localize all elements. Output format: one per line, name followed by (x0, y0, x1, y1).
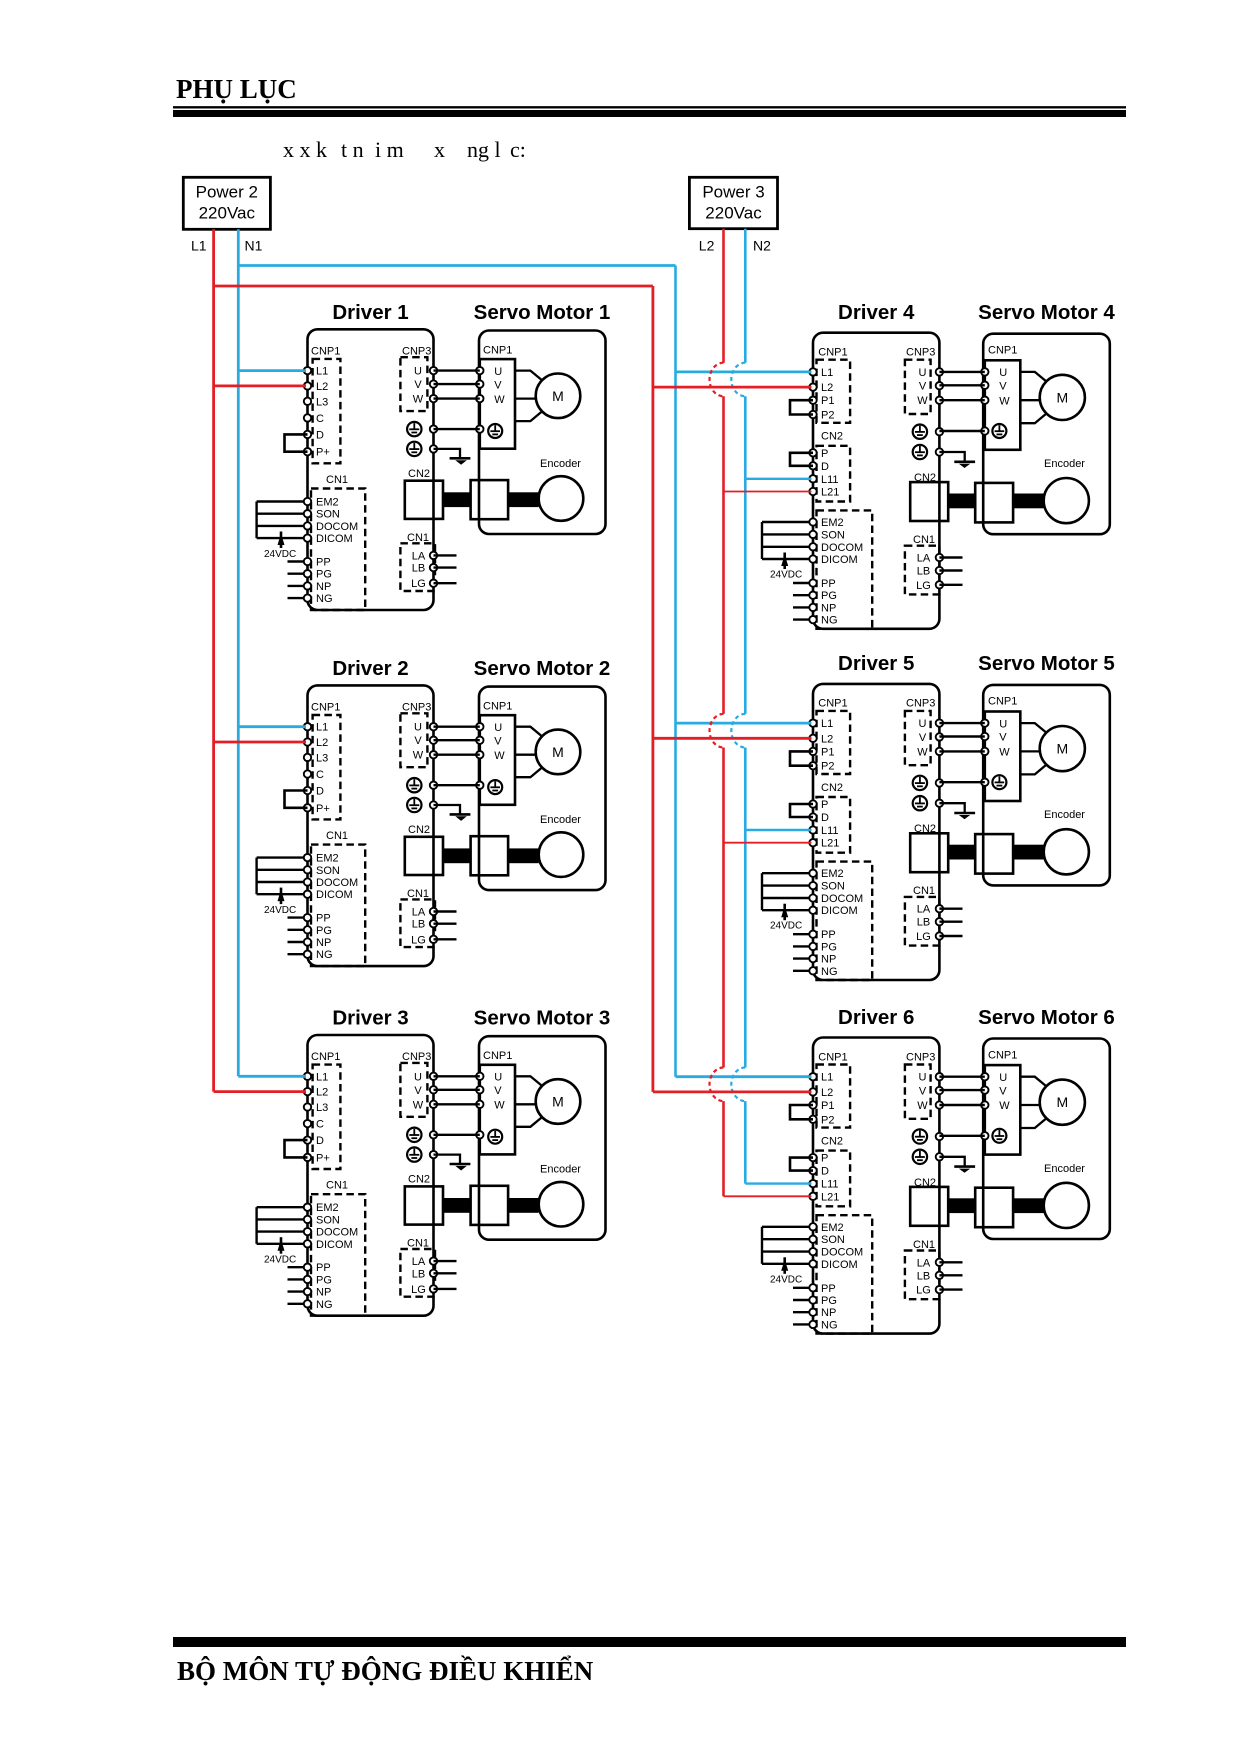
svg-text:CN2: CN2 (821, 431, 843, 443)
svg-text:Power 2: Power 2 (196, 183, 258, 202)
svg-text:NP: NP (821, 1307, 836, 1319)
wire L1 to Driver 3 L2 (214, 1090, 306, 1093)
header rule thick (173, 110, 1126, 117)
Driver 2 regen jumper wire D to P+ (285, 791, 308, 808)
svg-text:EM2: EM2 (316, 497, 339, 509)
motor M circle 3 (536, 1079, 581, 1124)
Servo Motor 1 connector CNP1 (pins U V W earth) (476, 345, 515, 449)
svg-text:C: C (316, 1119, 324, 1131)
svg-text:SON: SON (316, 1214, 340, 1226)
svg-text:Driver 5: Driver 5 (838, 652, 914, 675)
wire N2 to Driver 6 L11 (745, 1182, 811, 1184)
Driver 2 earth terminal 2 (407, 798, 437, 812)
svg-text:NG: NG (316, 593, 333, 605)
Driver 5 jumper wire P to D (790, 804, 813, 817)
Driver 2 connector CN1 (pins EM2 SON DOCOM DICOM PP PG NP NG) (257, 830, 366, 966)
svg-text:W: W (413, 1099, 424, 1111)
svg-text:L2: L2 (821, 733, 833, 745)
svg-text:24VDC: 24VDC (770, 921, 802, 932)
wire N1 to Driver 5 L1 (676, 722, 812, 725)
svg-text:SON: SON (821, 529, 845, 541)
driver Driver 3 outline (308, 1035, 434, 1316)
power source Power 2 box (183, 177, 270, 229)
svg-text:W: W (917, 1100, 928, 1112)
svg-text:V: V (414, 379, 422, 391)
svg-text:M: M (552, 744, 564, 760)
svg-text:L2: L2 (316, 1087, 328, 1099)
motor M winding leads 6 (1020, 1077, 1047, 1128)
svg-text:CNP1: CNP1 (818, 1051, 847, 1063)
svg-text:W: W (494, 750, 505, 762)
encoder cable driver CN2 to motor 3 (443, 1198, 539, 1213)
motor M circle 5 (1040, 726, 1085, 771)
svg-text:DICOM: DICOM (316, 1239, 353, 1251)
servo motor Servo Motor 2 outline (479, 687, 606, 891)
svg-text:EM2: EM2 (821, 517, 844, 529)
ground symbol at driver 2 (434, 805, 471, 821)
Servo Motor 4 earth terminal (992, 424, 1006, 438)
motor M winding leads 5 (1020, 723, 1047, 774)
svg-text:V: V (919, 732, 927, 744)
svg-text:Servo Motor 4: Servo Motor 4 (978, 301, 1115, 324)
encoder circle 4 (1044, 478, 1089, 523)
wire N1 to Driver 2 L1 (238, 725, 306, 728)
encoder cable driver CN2 to motor 5 (948, 845, 1043, 860)
svg-text:DOCOM: DOCOM (821, 893, 863, 905)
svg-text:LA: LA (917, 553, 931, 565)
svg-text:PG: PG (316, 925, 332, 937)
wire L2 hop arc at y=1084 (710, 1068, 724, 1102)
encoder cable driver CN2 to motor 1 (443, 492, 539, 507)
svg-text:24VDC: 24VDC (770, 570, 802, 581)
wire earth driver to motor 1 (434, 428, 480, 430)
svg-text:V: V (414, 735, 422, 747)
svg-text:PP: PP (316, 557, 331, 569)
servo motor Servo Motor 3 outline (479, 1036, 606, 1240)
svg-text:W: W (917, 746, 928, 758)
svg-text:L1: L1 (821, 718, 833, 730)
Driver 6 jumper wire P1 to P2 (790, 1105, 813, 1119)
svg-text:L21: L21 (821, 1191, 839, 1203)
svg-text:D: D (821, 812, 829, 824)
wire L2 to Driver 6 L21 (724, 1195, 812, 1197)
svg-text:V: V (999, 732, 1007, 744)
wire N2 to Driver 4 L11 (745, 478, 811, 480)
wire V phase driver to motor 5 (939, 735, 984, 737)
Servo Motor 2 connector CNP1 (pins U V W earth) (476, 701, 515, 805)
motor encoder connector 6 (975, 1188, 1013, 1228)
wire V phase driver to motor 4 (939, 384, 984, 386)
svg-text:D: D (821, 1166, 829, 1178)
Driver 2 connector CN1 bottom (pins LA LB LG) (400, 888, 456, 947)
wire earth driver to motor 4 (939, 430, 984, 432)
svg-text:Encoder: Encoder (540, 1164, 581, 1176)
svg-text:DICOM: DICOM (821, 1259, 858, 1271)
svg-text:CNP1: CNP1 (818, 347, 847, 359)
svg-text:P: P (821, 448, 828, 460)
Driver 6 connector CN2 power (pins P D L11 L21) (809, 1135, 850, 1206)
svg-text:L1: L1 (316, 1071, 328, 1083)
wire L1 to Driver 6 L2 (653, 1091, 812, 1094)
wire L1 to Driver 4 L2 (653, 386, 812, 389)
Servo Motor 3 connector CNP1 (pins U V W earth) (476, 1050, 515, 1154)
wire earth driver to motor 2 (434, 784, 480, 786)
svg-text:Power 3: Power 3 (702, 183, 764, 202)
svg-text:LA: LA (412, 550, 426, 562)
driver Driver 5 outline (813, 684, 939, 980)
wire L2 hop arc at y=380 (710, 363, 724, 397)
svg-text:V: V (494, 1085, 502, 1097)
svg-text:CNP1: CNP1 (311, 1051, 340, 1063)
svg-text:L1: L1 (316, 722, 328, 734)
svg-text:24VDC: 24VDC (264, 549, 296, 560)
Driver 6 earth terminal 2 (913, 1150, 943, 1164)
header rule thin (173, 106, 1126, 108)
svg-text:PG: PG (316, 569, 332, 581)
Driver 4 connector CN1 (pins EM2 SON DOCOM DICOM PP PG NP NG) (762, 510, 872, 628)
svg-text:L21: L21 (821, 838, 839, 850)
Driver 6 connector CN1 bottom (pins LA LB LG) (905, 1239, 963, 1299)
svg-text:CN2: CN2 (408, 1174, 430, 1186)
Driver 1 connector CN1 bottom (pins LA LB LG) (400, 532, 456, 591)
svg-text:NG: NG (821, 1319, 838, 1331)
svg-text:SON: SON (821, 881, 845, 893)
svg-text:DOCOM: DOCOM (821, 1247, 863, 1259)
driver Driver 4 outline (813, 333, 939, 629)
Driver 1 connector CN2 (encoder) (405, 468, 443, 519)
svg-text:CNP3: CNP3 (402, 702, 431, 714)
svg-text:24VDC: 24VDC (264, 1255, 296, 1266)
Driver 5 connector CNP3 (pins U V W) (905, 698, 943, 766)
svg-text:CNP1: CNP1 (311, 346, 340, 358)
Servo Motor 6 earth terminal (992, 1129, 1006, 1143)
motor M winding leads 3 (515, 1076, 543, 1127)
svg-text:U: U (919, 718, 927, 730)
encoder cable driver CN2 to motor 4 (948, 494, 1043, 509)
Servo Motor 6 connector CNP1 (pins U V W earth) (981, 1049, 1020, 1154)
Driver 5 connector CN1 bottom (pins LA LB LG) (905, 885, 963, 945)
svg-text:LB: LB (412, 919, 425, 931)
svg-text:U: U (494, 1072, 502, 1084)
svg-text:PP: PP (821, 929, 836, 941)
wire L2 red vertical bus from Power 3 (722, 229, 725, 1197)
footer rule thick (173, 1637, 1126, 1647)
svg-text:L2: L2 (316, 381, 328, 393)
svg-text:PP: PP (821, 578, 836, 590)
wire N1 blue branch horizontal to right column (238, 264, 675, 267)
Servo Motor 3 earth terminal (488, 1130, 502, 1144)
Driver 6 connector CNP1 (pins L1 L2 P1 P2) (809, 1051, 850, 1127)
svg-text:P+: P+ (316, 803, 330, 815)
svg-text:U: U (414, 722, 422, 734)
svg-text:CN1: CN1 (326, 830, 348, 842)
wire L2 to Driver 5 L21 (724, 842, 812, 844)
svg-text:CNP3: CNP3 (906, 698, 935, 710)
svg-text:CN1: CN1 (913, 885, 935, 897)
servo motor Servo Motor 5 outline (983, 685, 1110, 886)
wire earth driver to motor 6 (939, 1135, 984, 1137)
wire earth driver to motor 3 (434, 1134, 480, 1136)
svg-text:U: U (999, 367, 1007, 379)
encoder circle 6 (1044, 1183, 1089, 1228)
Driver 4 connector CN1 bottom (pins LA LB LG) (905, 534, 963, 594)
wire N1 to Driver 3 L1 (238, 1075, 306, 1078)
Driver 1 connector CNP1 (pins L1 L2 L3 C D P+) (304, 346, 341, 464)
svg-text:W: W (494, 1100, 505, 1112)
wire L1 to Driver 2 L2 (214, 741, 306, 744)
Driver 1 connector CNP3 (pins U V W) (400, 346, 437, 412)
svg-text:W: W (413, 394, 424, 406)
wire W phase driver to motor 5 (939, 750, 984, 752)
svg-text:LG: LG (916, 1285, 931, 1297)
wire W phase driver to motor 4 (939, 399, 984, 401)
ground symbol at driver 4 (939, 452, 975, 468)
svg-text:NP: NP (316, 581, 331, 593)
ground symbol at driver 3 (434, 1155, 471, 1171)
Driver 1 regen jumper wire D to P+ (285, 434, 308, 451)
wire N2 hop arc at y=1084 (731, 1068, 745, 1102)
svg-text:Encoder: Encoder (540, 814, 581, 826)
wire L1 to Driver 1 L2 (214, 384, 306, 387)
svg-text:DOCOM: DOCOM (316, 521, 358, 533)
svg-text:Servo Motor 5: Servo Motor 5 (978, 652, 1115, 675)
motor M circle 2 (536, 730, 581, 775)
svg-text:W: W (999, 395, 1010, 407)
svg-text:CN2: CN2 (408, 468, 430, 480)
svg-text:CNP1: CNP1 (483, 1050, 512, 1062)
svg-text:U: U (999, 718, 1007, 730)
svg-text:U: U (494, 366, 502, 378)
svg-text:Driver 6: Driver 6 (838, 1006, 914, 1029)
svg-text:M: M (1056, 389, 1068, 405)
wire N2 hop arc at y=731 (731, 714, 745, 748)
motor M circle 4 (1040, 375, 1085, 420)
svg-text:P: P (821, 1153, 828, 1165)
svg-text:PP: PP (821, 1283, 836, 1295)
svg-text:220Vac: 220Vac (199, 204, 256, 223)
Driver 3 connector CN1 bottom (pins LA LB LG) (400, 1238, 456, 1297)
svg-text:LB: LB (917, 566, 930, 578)
svg-text:NG: NG (821, 615, 838, 627)
Driver 2 connector CNP1 (pins L1 L2 L3 C D P+) (304, 702, 341, 820)
svg-text:NP: NP (316, 937, 331, 949)
svg-text:CNP1: CNP1 (818, 698, 847, 710)
svg-text:LG: LG (916, 580, 931, 592)
encoder circle 5 (1044, 829, 1089, 874)
svg-text:PG: PG (316, 1274, 332, 1286)
servo motor Servo Motor 4 outline (983, 334, 1110, 535)
svg-text:P+: P+ (316, 1152, 330, 1164)
Driver 3 connector CN2 (encoder) (405, 1174, 443, 1225)
encoder circle 1 (539, 476, 584, 521)
Driver 5 24VDC supply bundle (762, 873, 802, 932)
svg-text:L3: L3 (316, 396, 328, 408)
Driver 6 connector CNP3 (pins U V W) (905, 1051, 943, 1119)
svg-text:D: D (316, 786, 324, 798)
svg-text:PG: PG (821, 941, 837, 953)
ground symbol at driver 6 (939, 1157, 975, 1173)
wire N2 blue vertical bus from Power 3 (744, 229, 747, 1184)
Driver 5 earth terminal 2 (913, 796, 943, 810)
svg-text:LB: LB (412, 1268, 425, 1280)
svg-text:L3: L3 (316, 752, 328, 764)
svg-text:CNP1: CNP1 (988, 345, 1017, 357)
wire L1 red vertical bus from Power 2 (212, 229, 215, 1091)
Driver 4 jumper wire P1 to P2 (790, 400, 813, 414)
svg-text:V: V (919, 1086, 927, 1098)
svg-text:NG: NG (316, 1299, 333, 1311)
wire V phase driver to motor 1 (434, 383, 480, 385)
wire V phase driver to motor 3 (434, 1089, 480, 1091)
Driver 6 connector CN2 (encoder) (910, 1177, 948, 1226)
svg-text:CN2: CN2 (408, 824, 430, 836)
Driver 4 earth terminal 1 (913, 425, 943, 439)
svg-text:SON: SON (316, 865, 340, 877)
Servo Motor 5 connector CNP1 (pins U V W earth) (981, 696, 1020, 801)
Driver 1 earth terminal 2 (407, 442, 437, 456)
svg-text:P1: P1 (821, 746, 834, 758)
svg-text:Driver 3: Driver 3 (332, 1007, 408, 1030)
svg-text:EM2: EM2 (316, 853, 339, 865)
driver Driver 6 outline (813, 1038, 939, 1334)
Driver 4 connector CN2 power (pins P D L11 L21) (809, 431, 850, 502)
svg-text:NP: NP (821, 602, 836, 614)
svg-text:SON: SON (821, 1234, 845, 1246)
svg-text:EM2: EM2 (316, 1202, 339, 1214)
svg-text:M: M (1056, 741, 1068, 757)
svg-text:LB: LB (917, 1270, 930, 1282)
svg-text:L1: L1 (821, 1072, 833, 1084)
svg-text:L21: L21 (821, 487, 839, 499)
svg-text:LG: LG (411, 1284, 426, 1296)
svg-text:L1: L1 (191, 238, 207, 254)
svg-text:CN1: CN1 (913, 534, 935, 546)
svg-text:V: V (494, 379, 502, 391)
svg-text:P2: P2 (821, 1114, 834, 1126)
svg-text:M: M (552, 1094, 564, 1110)
svg-text:Driver 4: Driver 4 (838, 301, 915, 324)
Driver 5 jumper wire P1 to P2 (790, 751, 813, 765)
svg-text:D: D (316, 429, 324, 441)
Driver 5 connector CN2 power (pins P D L11 L21) (809, 782, 850, 853)
wire N2 hop arc at y=380 (731, 363, 745, 397)
svg-text:P2: P2 (821, 410, 834, 422)
Driver 4 connector CNP1 (pins L1 L2 P1 P2) (809, 347, 850, 423)
servo motor Servo Motor 6 outline (983, 1039, 1110, 1240)
svg-text:Encoder: Encoder (1044, 1163, 1085, 1175)
motor encoder connector 4 (975, 483, 1013, 523)
svg-text:V: V (999, 1085, 1007, 1097)
svg-text:DICOM: DICOM (316, 533, 353, 545)
svg-text:W: W (917, 395, 928, 407)
svg-text:P1: P1 (821, 1100, 834, 1112)
Servo Motor 1 earth terminal (488, 424, 502, 438)
wire N1 to Driver 4 L1 (676, 370, 812, 373)
svg-text:LG: LG (411, 934, 426, 946)
svg-text:U: U (919, 1072, 927, 1084)
wire W phase driver to motor 2 (434, 754, 480, 756)
wire L1 red branch vertical right column (652, 286, 655, 1092)
Servo Motor 4 connector CNP1 (pins U V W earth) (981, 345, 1020, 450)
svg-text:DICOM: DICOM (821, 905, 858, 917)
svg-text:EM2: EM2 (821, 1222, 844, 1234)
Driver 3 connector CNP1 (pins L1 L2 L3 C D P+) (304, 1051, 341, 1169)
svg-text:LA: LA (412, 907, 426, 919)
wire U phase driver to motor 5 (939, 722, 984, 724)
svg-text:CNP3: CNP3 (906, 1051, 935, 1063)
encoder circle 2 (539, 832, 584, 877)
svg-text:L2: L2 (821, 382, 833, 394)
Driver 2 24VDC supply bundle (257, 858, 297, 917)
svg-text:CNP3: CNP3 (402, 1051, 431, 1063)
svg-text:LG: LG (411, 578, 426, 590)
Driver 6 connector CN1 (pins EM2 SON DOCOM DICOM PP PG NP NG) (762, 1215, 872, 1333)
wire W phase driver to motor 3 (434, 1103, 480, 1105)
wire L1 to Driver 5 L2 (653, 737, 812, 740)
svg-text:L11: L11 (821, 1179, 839, 1191)
svg-text:P1: P1 (821, 395, 834, 407)
svg-text:NG: NG (316, 949, 333, 961)
svg-text:Servo Motor 1: Servo Motor 1 (474, 301, 611, 324)
wire U phase driver to motor 1 (434, 369, 480, 371)
wire U phase driver to motor 6 (939, 1075, 984, 1077)
svg-text:U: U (494, 722, 502, 734)
svg-text:LG: LG (916, 931, 931, 943)
Driver 5 earth terminal 1 (913, 776, 943, 790)
svg-text:NP: NP (821, 954, 836, 966)
Driver 6 earth terminal 1 (913, 1129, 943, 1143)
svg-text:DOCOM: DOCOM (821, 542, 863, 554)
svg-text:U: U (414, 366, 422, 378)
svg-text:DICOM: DICOM (316, 889, 353, 901)
svg-text:L1: L1 (821, 367, 833, 379)
wire L2 hop arc at y=731 (710, 714, 724, 748)
svg-text:W: W (999, 747, 1010, 759)
Driver 2 earth terminal 1 (407, 778, 437, 792)
Driver 4 earth terminal 2 (913, 445, 943, 459)
motor M circle 6 (1040, 1080, 1085, 1125)
svg-text:U: U (414, 1071, 422, 1083)
svg-text:PG: PG (821, 1295, 837, 1307)
Driver 4 jumper wire P to D (790, 453, 813, 466)
svg-text:Driver 1: Driver 1 (332, 301, 408, 324)
svg-text:CN1: CN1 (913, 1239, 935, 1251)
svg-text:P2: P2 (821, 761, 834, 773)
encoder circle 3 (539, 1182, 584, 1227)
Driver 1 24VDC supply bundle (257, 502, 297, 561)
wire earth driver to motor 5 (939, 781, 984, 783)
Driver 1 connector CN1 (pins EM2 SON DOCOM DICOM PP PG NP NG) (257, 474, 366, 610)
svg-text:D: D (316, 1135, 324, 1147)
svg-text:CN1: CN1 (326, 474, 348, 486)
svg-text:Servo Motor 3: Servo Motor 3 (474, 1007, 611, 1030)
svg-text:W: W (494, 394, 505, 406)
svg-text:U: U (919, 367, 927, 379)
svg-text:CN1: CN1 (326, 1180, 348, 1192)
svg-text:CNP1: CNP1 (988, 696, 1017, 708)
svg-text:CNP1: CNP1 (483, 701, 512, 713)
svg-text:L11: L11 (821, 474, 839, 486)
svg-text:Encoder: Encoder (1044, 458, 1085, 470)
svg-text:V: V (999, 381, 1007, 393)
svg-text:CNP1: CNP1 (483, 345, 512, 357)
Driver 1 earth terminal 1 (407, 422, 437, 436)
motor M winding leads 1 (515, 371, 543, 422)
motor encoder connector 1 (471, 480, 509, 519)
svg-text:PG: PG (821, 590, 837, 602)
wire L2 to Driver 4 L21 (724, 491, 812, 493)
svg-text:V: V (494, 735, 502, 747)
